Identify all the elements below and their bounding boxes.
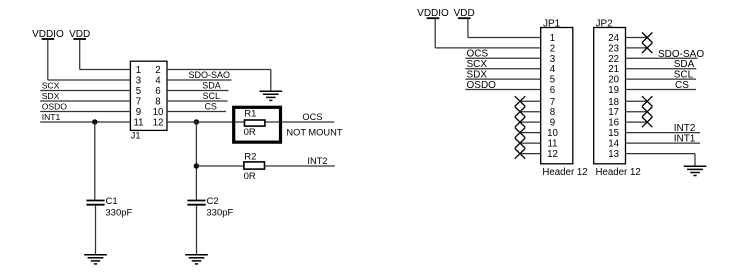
- svg-text:17: 17: [608, 107, 619, 118]
- svg-text:9: 9: [550, 118, 555, 129]
- svg-text:13: 13: [608, 149, 619, 160]
- svg-text:2: 2: [550, 43, 555, 54]
- svg-text:11: 11: [133, 118, 143, 129]
- svg-text:Header 12: Header 12: [596, 167, 641, 178]
- svg-text:SDA: SDA: [674, 59, 695, 70]
- svg-text:21: 21: [608, 64, 619, 75]
- svg-text:10: 10: [547, 128, 558, 139]
- svg-text:18: 18: [608, 97, 619, 108]
- svg-text:14: 14: [608, 139, 619, 150]
- svg-text:SDX: SDX: [467, 70, 488, 81]
- svg-text:C2: C2: [207, 196, 219, 207]
- svg-text:8: 8: [155, 97, 160, 108]
- svg-text:CS: CS: [204, 102, 217, 112]
- svg-text:NOT MOUNT: NOT MOUNT: [286, 128, 342, 138]
- svg-text:C1: C1: [106, 196, 118, 207]
- svg-text:6: 6: [550, 85, 555, 96]
- svg-text:1: 1: [136, 65, 141, 76]
- svg-text:12: 12: [547, 149, 558, 160]
- svg-text:INT2: INT2: [307, 156, 327, 166]
- svg-text:R1: R1: [244, 108, 256, 119]
- svg-text:330pF: 330pF: [105, 207, 132, 218]
- svg-text:24: 24: [608, 33, 619, 44]
- svg-text:SCX: SCX: [467, 59, 488, 70]
- svg-text:SDO-SAO: SDO-SAO: [188, 70, 230, 80]
- svg-text:19: 19: [608, 85, 619, 96]
- svg-text:OCS: OCS: [467, 49, 489, 60]
- svg-text:0R: 0R: [244, 127, 256, 138]
- svg-text:J1: J1: [131, 131, 141, 141]
- svg-text:6: 6: [155, 86, 160, 97]
- svg-text:Header 12: Header 12: [542, 167, 587, 178]
- svg-text:SCX: SCX: [42, 81, 60, 91]
- svg-text:SCL: SCL: [203, 91, 221, 101]
- svg-text:OCS: OCS: [302, 112, 322, 122]
- svg-text:INT1: INT1: [42, 112, 61, 122]
- svg-text:4: 4: [155, 76, 161, 87]
- svg-text:JP2: JP2: [596, 18, 614, 29]
- svg-text:11: 11: [547, 139, 557, 150]
- svg-text:330pF: 330pF: [206, 207, 233, 218]
- svg-text:5: 5: [136, 86, 141, 97]
- svg-text:INT2: INT2: [674, 123, 696, 134]
- svg-text:SCL: SCL: [674, 70, 694, 81]
- svg-text:OSDO: OSDO: [42, 102, 68, 112]
- svg-text:OSDO: OSDO: [467, 80, 497, 91]
- svg-text:2: 2: [155, 65, 160, 76]
- svg-text:7: 7: [550, 97, 555, 108]
- svg-text:20: 20: [608, 75, 619, 86]
- svg-text:SDA: SDA: [202, 81, 221, 91]
- svg-text:23: 23: [608, 43, 619, 54]
- svg-text:9: 9: [136, 107, 141, 118]
- svg-text:10: 10: [153, 107, 164, 118]
- svg-text:CS: CS: [675, 80, 689, 91]
- svg-text:12: 12: [153, 118, 164, 129]
- svg-text:5: 5: [550, 75, 555, 86]
- svg-text:22: 22: [608, 54, 619, 65]
- svg-text:3: 3: [550, 54, 555, 65]
- svg-text:16: 16: [608, 118, 619, 129]
- svg-text:SDO-SAO: SDO-SAO: [658, 49, 704, 60]
- svg-text:JP1: JP1: [543, 18, 561, 29]
- svg-text:INT1: INT1: [674, 134, 696, 145]
- svg-text:1: 1: [550, 33, 555, 44]
- svg-text:15: 15: [608, 128, 619, 139]
- svg-text:7: 7: [136, 97, 141, 108]
- svg-text:8: 8: [550, 107, 555, 118]
- svg-text:R2: R2: [244, 152, 256, 163]
- svg-text:3: 3: [136, 76, 141, 87]
- svg-text:4: 4: [550, 64, 556, 75]
- svg-text:SDX: SDX: [42, 91, 60, 101]
- svg-text:0R: 0R: [244, 171, 256, 182]
